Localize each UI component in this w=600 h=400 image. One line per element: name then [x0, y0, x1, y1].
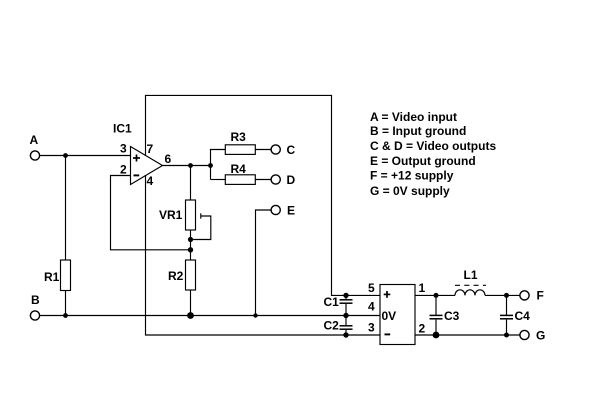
svg-text:R1: R1 — [44, 270, 60, 284]
svg-text:C & D = Video outputs: C & D = Video outputs — [370, 139, 496, 153]
svg-text:E = Output ground: E = Output ground — [370, 154, 476, 168]
wire A to op-amp pin 3 — [40, 155, 131, 157]
svg-text:C4: C4 — [515, 309, 531, 323]
junction C3 top — [434, 293, 439, 298]
junction R2 / B rail (emphasized) — [187, 312, 194, 319]
junction E / B rail — [253, 313, 257, 317]
svg-text:B = Input ground: B = Input ground — [370, 124, 466, 138]
svg-text:4: 4 — [368, 300, 375, 314]
junction output to VR1 branch — [188, 163, 193, 168]
capacitor C4 — [506, 295, 508, 315]
wire VR1 to R2 — [190, 230, 192, 260]
svg-text:C1: C1 — [324, 295, 340, 309]
junction VR1 bottom / wiper — [188, 237, 193, 242]
junction C4 top — [504, 293, 509, 298]
resistor R1 — [61, 260, 71, 291]
svg-text:5: 5 — [368, 281, 375, 295]
inductor L1 — [455, 290, 485, 296]
node A junction — [63, 153, 68, 158]
svg-text:4: 4 — [147, 174, 154, 188]
svg-text:R4: R4 — [231, 162, 247, 176]
wire R3 to terminal C — [255, 149, 271, 151]
L1 shield dashed line — [455, 284, 486, 286]
terminal G — [520, 330, 529, 339]
resistor R3 — [225, 145, 255, 155]
op-amp - input marking — [134, 174, 140, 176]
capacitor C2 — [345, 316, 347, 326]
VR1 wiper arm wire — [191, 216, 211, 240]
svg-text:2: 2 — [120, 163, 127, 177]
svg-text:L1: L1 — [464, 268, 478, 282]
resistor R2 — [186, 260, 196, 290]
wire R4 to terminal D — [255, 179, 271, 181]
svg-text:F = +12 supply: F = +12 supply — [370, 169, 454, 183]
svg-text:C: C — [287, 143, 296, 157]
svg-text:6: 6 — [165, 152, 172, 166]
junction R1 / B rail — [63, 313, 68, 318]
svg-text:2: 2 — [419, 322, 426, 336]
voltage regulator U2 box — [380, 285, 415, 345]
svg-text:G: G — [536, 329, 545, 343]
capacitor C1 — [345, 295, 347, 299]
svg-text:F: F — [537, 289, 544, 303]
terminal D — [271, 175, 280, 184]
junction C4 bottom — [504, 333, 509, 338]
wire pin 6 output — [163, 165, 211, 167]
regulator - marking — [385, 333, 391, 335]
terminal E — [271, 205, 280, 214]
svg-text:7: 7 — [147, 142, 154, 156]
wire 0V output rail to terminal G — [415, 334, 520, 336]
svg-text:VR1: VR1 — [159, 208, 183, 222]
svg-text:3: 3 — [368, 321, 375, 335]
wire pin 7 to regulator pin 5 (supply loop) — [146, 95, 381, 295]
junction C3 bottom (emphasized) — [433, 332, 440, 339]
wire branch to R4 — [211, 179, 226, 181]
wire R1 to ground rail — [65, 291, 67, 316]
potentiometer VR1 — [186, 200, 196, 230]
svg-text:R3: R3 — [231, 130, 247, 144]
wire regulator pin 1 to L1 — [415, 294, 455, 296]
terminal B — [30, 311, 39, 320]
svg-text:A: A — [30, 133, 39, 147]
svg-text:R2: R2 — [168, 269, 184, 283]
svg-text:3: 3 — [120, 142, 127, 156]
regulator + marking — [384, 293, 391, 295]
wire output node down to VR1 — [190, 166, 192, 201]
wire R2 to ground rail — [190, 290, 192, 316]
wire E down to ground rail — [256, 210, 272, 316]
junction C1 top — [343, 293, 348, 298]
svg-text:A = Video input: A = Video input — [370, 110, 457, 124]
junction C2 bottom on 0V rail — [343, 332, 348, 337]
svg-text:IC1: IC1 — [113, 122, 132, 136]
junction output to R3/R4 branch — [208, 163, 213, 168]
op-amp + input marking — [133, 157, 140, 159]
svg-text:C3: C3 — [444, 309, 460, 323]
svg-text:D: D — [287, 173, 296, 187]
terminal C — [271, 145, 280, 154]
op-amp IC1 — [131, 147, 163, 185]
wire branch up to R3 — [211, 150, 226, 180]
svg-text:C2: C2 — [324, 319, 340, 333]
svg-text:E: E — [287, 204, 295, 218]
terminal F — [520, 291, 529, 300]
svg-text:G = 0V supply: G = 0V supply — [370, 184, 450, 198]
junction feedback / divider node — [188, 247, 193, 252]
wire node A down to R1 — [65, 156, 67, 261]
wire L1 to terminal F — [485, 294, 520, 296]
wire pin 4 to 0V rail into regulator pin 3 — [146, 175, 381, 335]
svg-text:B: B — [31, 293, 40, 307]
junction C1/C2 on B rail — [343, 313, 348, 318]
wire pin 2 feedback loop — [111, 176, 191, 250]
terminal A — [30, 151, 39, 160]
svg-text:1: 1 — [419, 281, 426, 295]
wire B ground rail to regulator pin 4 — [40, 315, 380, 317]
VR1 wiper contact tick — [200, 213, 202, 218]
resistor R4 — [225, 175, 255, 185]
svg-text:0V: 0V — [382, 309, 397, 323]
capacitor C3 — [435, 295, 437, 315]
